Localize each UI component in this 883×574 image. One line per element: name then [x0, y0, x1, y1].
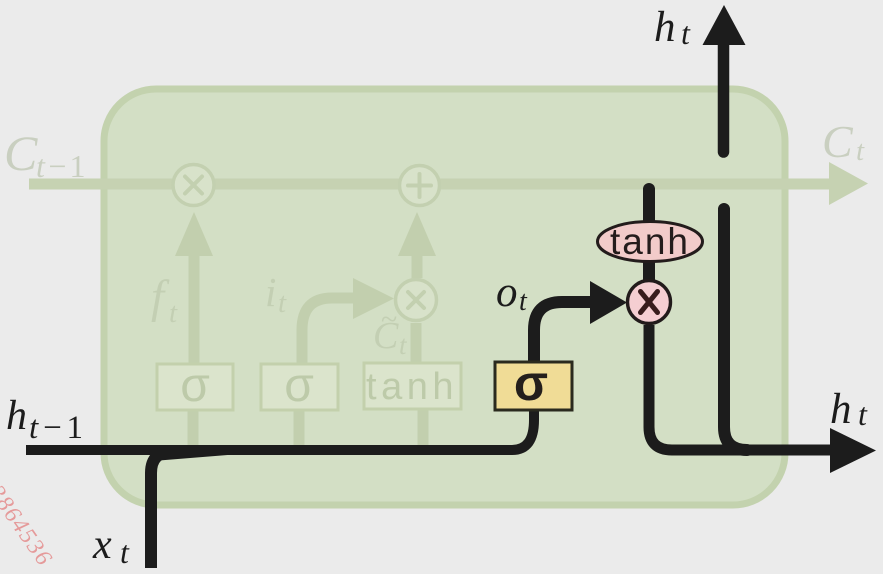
svg-text:t: t — [681, 15, 691, 51]
svg-text:tanh: tanh — [366, 366, 458, 408]
svg-text:t: t — [858, 396, 868, 432]
svg-text:σ: σ — [180, 359, 210, 412]
svg-text:tanh: tanh — [610, 221, 690, 262]
svg-text:t−1: t−1 — [36, 148, 87, 184]
svg-text:σ: σ — [514, 355, 548, 411]
svg-text:h: h — [830, 386, 852, 433]
svg-text:t: t — [278, 287, 287, 319]
svg-text:σ: σ — [284, 359, 314, 412]
svg-text:C: C — [4, 125, 38, 181]
svg-text:o: o — [496, 269, 518, 316]
svg-text:C: C — [822, 116, 854, 167]
svg-text:t: t — [120, 534, 130, 570]
svg-text:t: t — [169, 297, 178, 329]
svg-text:x: x — [92, 522, 112, 568]
svg-text:h: h — [6, 393, 27, 439]
svg-text:t: t — [519, 286, 528, 317]
svg-text:t: t — [856, 135, 865, 167]
svg-text:~: ~ — [381, 303, 397, 336]
svg-text:h: h — [654, 4, 676, 51]
svg-text:t−1: t−1 — [29, 410, 86, 446]
svg-text:i: i — [265, 269, 276, 315]
